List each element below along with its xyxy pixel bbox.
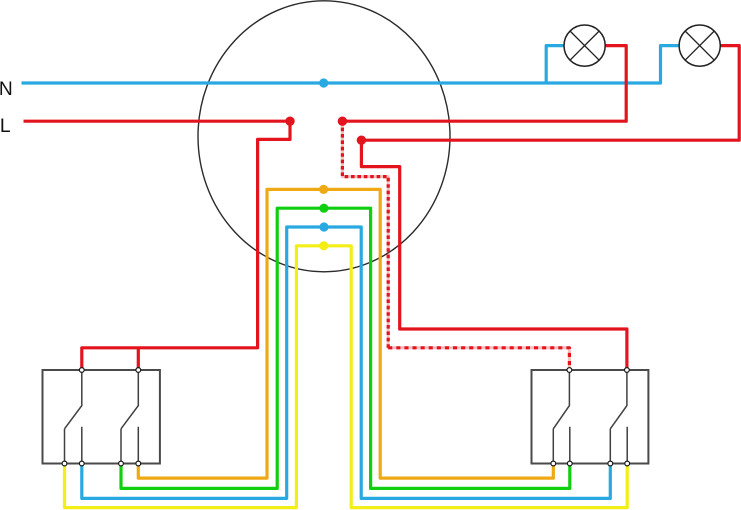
switch S2 gang B contact stubs bbox=[610, 427, 627, 464]
node blue junction dot bbox=[319, 222, 328, 231]
switch S1 gang B contact stubs bbox=[121, 427, 138, 464]
node N junction dot bbox=[319, 78, 328, 87]
node L junction dot 1 bbox=[285, 117, 294, 126]
switch S1 gang A contact stubs bbox=[65, 427, 82, 464]
wire red to right switch common B bbox=[361, 140, 627, 370]
switch S1 gang A mechanism bbox=[65, 370, 82, 429]
node green junction dot bbox=[319, 204, 328, 213]
wire red to lamp E2 bbox=[361, 46, 739, 141]
wire red dashed to right switch common A (faint base) bbox=[342, 121, 569, 370]
switch box S2 (right) bbox=[532, 370, 649, 464]
wire red to left switch bbox=[82, 121, 290, 370]
lamp E2 bbox=[679, 25, 720, 66]
wire green traveller loop bbox=[121, 208, 570, 488]
switch S2 gang A contact stubs bbox=[553, 427, 570, 464]
node yellow junction dot bbox=[319, 241, 328, 250]
switch S1 top terminals bbox=[79, 368, 140, 373]
wire blue traveller loop bbox=[82, 227, 611, 498]
wire red to lamp E1 bbox=[342, 46, 626, 122]
wire L (red) feed bbox=[24, 120, 291, 123]
wire red dashed to right switch common A (upper run) bbox=[342, 121, 388, 348]
switch S1 gang B mechanism bbox=[121, 370, 138, 429]
wire N branch to lamp E1 bbox=[546, 46, 564, 83]
svg-text:N: N bbox=[0, 79, 13, 100]
node orange junction dot bbox=[319, 185, 328, 194]
wire red branch left switch second common bbox=[137, 348, 140, 370]
switch S2 gang A mechanism bbox=[553, 370, 569, 429]
svg-text:L: L bbox=[0, 116, 11, 137]
switch box S1 (left) bbox=[43, 370, 160, 464]
wire N (blue) main run bbox=[22, 46, 680, 83]
wire yellow traveller loop bbox=[65, 246, 628, 508]
node L junction dot 2 bbox=[338, 117, 347, 126]
wire orange traveller loop bbox=[138, 189, 553, 478]
node L junction dot 3 bbox=[357, 136, 366, 145]
switch S1 bottom terminals bbox=[62, 461, 141, 466]
switch S2 bottom terminals bbox=[551, 461, 630, 466]
switch S2 gang B mechanism bbox=[610, 370, 627, 429]
lamp E1 bbox=[564, 25, 605, 66]
wire red dashed to right switch common A (lower run) bbox=[388, 348, 569, 370]
switch S2 top terminals bbox=[567, 368, 629, 373]
junction box circle bbox=[198, 1, 450, 272]
